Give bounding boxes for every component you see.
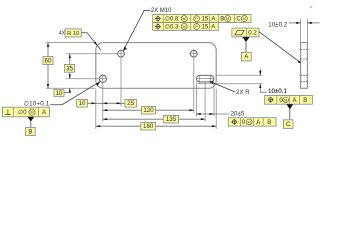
svg-text:2X M10: 2X M10 [151,8,172,14]
svg-text:135: 135 [166,116,177,123]
svg-text:25: 25 [127,100,134,107]
svg-text:B: B [220,17,224,23]
bottom extension lines [95,90,97,129]
label 10 horizontal [77,100,88,108]
dim 120 row [103,109,194,111]
datum A triangle [242,37,249,42]
dim 10+-0.1 slot width [259,69,261,75]
svg-text:M: M [183,16,186,21]
label 60 [43,57,53,65]
label 120 [142,106,156,114]
svg-text:M: M [284,97,287,102]
dim 10 vertical (hole row to bottom) [69,88,71,92]
row2 position symbol [155,24,161,30]
svg-text:20±5: 20±5 [231,111,245,118]
datum A label [241,52,251,61]
svg-text:M: M [226,16,229,21]
svg-text:C: C [236,17,241,23]
datum C label [283,120,293,129]
svg-text:P: P [195,16,198,21]
plate outline main view [96,43,216,89]
dim 10+-0.2 (plate thickness) [289,22,301,24]
label 135 [163,115,178,123]
svg-text:4X: 4X [59,30,66,36]
svg-text:∅0.3: ∅0.3 [165,24,179,31]
svg-text:P: P [195,24,198,29]
svg-text:15: 15 [202,17,209,23]
svg-text:M: M [243,16,246,21]
hole H1 centerlines [66,53,125,55]
svg-text:60: 60 [45,58,52,65]
label 10 vertical [54,90,64,97]
hole H1 (left M10 tapped hole) [118,50,125,57]
stray mark top right [310,6,312,8]
slot width extension lines [216,74,263,76]
dim 135 row [103,118,205,120]
slot (datum feature C) [196,75,214,82]
datum B triangle [28,117,35,122]
dim 160 row [96,125,216,127]
svg-text:B: B [303,98,307,104]
svg-text:∅0.8: ∅0.8 [165,16,179,23]
dim 10 horizontal row [88,102,125,104]
dim 35 [69,54,71,79]
hole H2 centerlines [189,53,198,55]
row1 position symbol [155,16,161,22]
svg-text:C: C [286,121,291,128]
label 25 [125,100,136,108]
leader M10 [124,10,151,50]
label 35 [65,64,75,72]
svg-text:15: 15 [202,25,209,31]
svg-text:10: 10 [79,100,86,107]
svg-text:M: M [30,110,33,115]
svg-text:M: M [248,119,251,124]
leader 2X R [210,82,235,93]
svg-text:120: 120 [143,107,154,114]
svg-text:10±0.1: 10±0.1 [268,88,287,95]
svg-text:2X R: 2X R [236,89,250,96]
svg-text:M: M [183,24,186,29]
dim 60 extension lines [46,42,96,44]
svg-text:A: A [211,25,215,31]
hole H2 (right M10 tapped hole) [190,50,197,57]
svg-text:A: A [292,98,296,104]
label 160 [141,122,156,130]
leader flatness to side view [259,32,301,63]
svg-text:10: 10 [56,90,63,97]
svg-text:0.2: 0.2 [248,30,257,37]
svg-text:A: A [42,110,46,116]
svg-text:160: 160 [143,123,154,130]
FCF perpendicularity (hole B) [2,107,49,117]
FCF position slot width (carries datum C) [265,95,313,104]
svg-text:∅10+0.1: ∅10+0.1 [24,101,50,108]
hole B (datum feature B, dia 10 +0.1) [99,75,106,82]
side view hidden lines [301,50,308,82]
dim 60 [47,43,49,89]
FCF composite position (top) [153,14,251,30]
datum B label [26,127,36,135]
svg-text:B: B [28,128,32,135]
svg-text:∅0: ∅0 [18,109,27,116]
svg-text:R 10: R 10 [67,31,79,37]
slot centerlines [196,78,215,80]
hole B centerlines [66,78,108,80]
svg-text:A: A [256,120,260,126]
FCF flatness 0.2 [232,28,259,37]
leader hole B [50,82,99,105]
svg-text:10±0.2: 10±0.2 [268,22,287,29]
side view extension lines [300,19,302,43]
FCF position slot location (20+-5) [228,118,276,126]
dim 20+-5 row (slot) [196,113,229,115]
svg-text:B: B [267,120,271,126]
datum C triangle [287,104,294,109]
svg-text:35: 35 [66,65,73,72]
svg-text:A: A [211,17,215,23]
side view [301,43,308,89]
leader R10 [81,33,101,51]
